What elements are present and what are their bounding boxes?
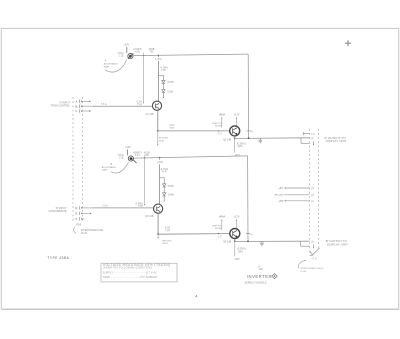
node bus A / +5V branch bbox=[158, 55, 160, 57]
svg-text:C1B: C1B bbox=[119, 56, 124, 58]
svg-text:PLUG: PLUG bbox=[81, 233, 87, 235]
svg-text:HIGH: HIGH bbox=[159, 140, 165, 142]
note box voltage readings bbox=[101, 263, 177, 282]
node bus A / base test line bbox=[143, 55, 145, 57]
svg-text:-20V: -20V bbox=[234, 257, 240, 261]
svg-text:+8MA: +8MA bbox=[218, 112, 225, 116]
wire input A to Q1 base bbox=[93, 105, 152, 107]
node bus B leg joins output B bbox=[247, 240, 249, 242]
capacitor C1 on output B wire bbox=[261, 241, 263, 243]
wire main bus channel A bbox=[133, 54, 248, 56]
wire output B to connector J2 bbox=[235, 240, 310, 242]
transistor Q2 bbox=[230, 126, 240, 136]
signal arrow on Q2 base wire bbox=[218, 130, 220, 131]
wire between CR3 CR4 bbox=[163, 187, 165, 192]
svg-text:Q1 14B: Q1 14B bbox=[146, 113, 155, 116]
svg-text:HIGH: HIGH bbox=[162, 243, 168, 245]
wire +5V branch down to Q3 collector bbox=[159, 164, 161, 204]
capacitor C2 on output A wire bbox=[259, 138, 261, 140]
svg-text:47MA: 47MA bbox=[118, 52, 124, 55]
svg-text:TYP: TYP bbox=[137, 103, 142, 107]
svg-text:INTERCONNECTING P: INTERCONNECTING P bbox=[301, 268, 325, 270]
wire between CR1 CR2 bbox=[162, 84, 164, 89]
svg-text:47MA: 47MA bbox=[118, 154, 124, 157]
wire diode branch channel B bbox=[160, 178, 165, 184]
transistor Q3 bbox=[154, 204, 163, 213]
svg-text:NOISE: NOISE bbox=[215, 228, 222, 230]
svg-text:FROM REMOTE: FROM REMOTE bbox=[49, 210, 67, 213]
svg-text:4.6V: 4.6V bbox=[135, 50, 140, 53]
jumper diagonal at J2 bottom bbox=[310, 248, 320, 255]
diode CR4 bbox=[163, 193, 166, 196]
title diamond mark bbox=[272, 274, 278, 279]
svg-text:E: E bbox=[76, 212, 78, 216]
svg-text:SUPPLY - - - - - - - - - - -: SUPPLY - - - - - - - - - - - - - - - - -… bbox=[103, 271, 157, 274]
svg-text:Q2 14B: Q2 14B bbox=[223, 139, 232, 142]
transistor Q1 bbox=[152, 101, 161, 110]
wire Q2 collector to output node bbox=[234, 136, 236, 139]
svg-text:20MV P-P: 20MV P-P bbox=[212, 225, 222, 227]
svg-text:4.6V: 4.6V bbox=[135, 154, 140, 157]
test callout line to Q1 base wire bbox=[143, 53, 145, 102]
svg-text:TYP: TYP bbox=[138, 204, 143, 208]
wire Q3 node to Q4 base bbox=[158, 233, 230, 236]
svg-text:ADJUSTABLE: ADJUSTABLE bbox=[102, 166, 116, 169]
return stub with arrow channel B bbox=[157, 234, 159, 237]
svg-text:) A: ) A bbox=[311, 200, 314, 203]
node output B junction bbox=[234, 241, 236, 243]
wire main bus channel B bbox=[134, 156, 248, 158]
wire output node A to -20V bbox=[234, 139, 236, 153]
svg-text:+8MA: +8MA bbox=[218, 215, 225, 219]
svg-text:1MA: 1MA bbox=[237, 145, 242, 148]
svg-text:INTERCONNECTING: INTERCONNECTING bbox=[81, 230, 104, 232]
svg-text:14B: 14B bbox=[259, 269, 264, 271]
wire +5V branch down to Q1 collector bbox=[157, 61, 159, 101]
callout arc to interconnecting plug right bbox=[299, 260, 307, 268]
svg-text:-20V: -20V bbox=[234, 153, 240, 157]
page bottom edge shadow bbox=[2, 308, 399, 310]
svg-text:TEMP - - - - - - - - - - - -: TEMP - - - - - - - - - - - - - - - - 77°… bbox=[103, 276, 158, 279]
potentiometer R2 gain adjust bbox=[128, 156, 133, 161]
svg-text:1MA: 1MA bbox=[238, 250, 243, 253]
wire bus A down leg bbox=[247, 54, 249, 138]
signal arrow on Q4 base wire bbox=[218, 233, 220, 234]
svg-text:≈1.5: ≈1.5 bbox=[217, 235, 222, 238]
svg-text:+12V: +12V bbox=[123, 44, 129, 47]
svg-text:D: D bbox=[75, 206, 77, 210]
svg-text:1N4B: 1N4B bbox=[167, 81, 174, 84]
wire input B to Q3 base bbox=[93, 207, 154, 209]
transistor Q4 bbox=[230, 229, 240, 239]
svg-text:PLUG: PLUG bbox=[301, 271, 307, 273]
wire CR4 to Q3 arrow bbox=[163, 196, 165, 200]
callout arc to interconnecting plug label bbox=[74, 227, 76, 234]
svg-text:7.5 A: 7.5 A bbox=[101, 103, 107, 106]
svg-text:Q3 14B: Q3 14B bbox=[145, 215, 154, 218]
svg-text:TYP: TYP bbox=[161, 68, 166, 72]
wire output node B to -20V bbox=[234, 241, 236, 256]
svg-text:+17V: +17V bbox=[233, 215, 239, 219]
wire Q1 node to Q2 base bbox=[158, 130, 230, 132]
svg-text:RETURN: RETURN bbox=[162, 240, 172, 242]
svg-text:+5V: +5V bbox=[278, 187, 283, 190]
svg-text:70K: 70K bbox=[149, 50, 154, 53]
supply arrow channel B bbox=[126, 150, 128, 155]
node output A junction bbox=[234, 138, 236, 140]
potentiometer R1 gain adjust bbox=[128, 54, 133, 59]
svg-text:513B: 513B bbox=[167, 90, 173, 93]
svg-text:DISPLAY UNIT: DISPLAY UNIT bbox=[327, 243, 348, 247]
svg-text:(+5V): (+5V) bbox=[155, 57, 162, 61]
diode CR3 bbox=[163, 184, 166, 187]
node output B ground branch bbox=[300, 241, 302, 246]
svg-text:C: C bbox=[75, 109, 77, 113]
svg-text:TYP: TYP bbox=[169, 126, 174, 130]
svg-text:DISPLAY UNIT: DISPLAY UNIT bbox=[326, 139, 347, 143]
wire output A to connector J2 bbox=[235, 137, 310, 140]
svg-text:1N4B: 1N4B bbox=[168, 194, 175, 197]
svg-text:TYPE 45BA: TYPE 45BA bbox=[47, 256, 69, 260]
capacitor tick on bus B leg bbox=[246, 233, 250, 235]
connector J1 dashed boundary line right bbox=[82, 97, 84, 223]
svg-text:3 4: 3 4 bbox=[311, 133, 315, 136]
svg-text:4: 4 bbox=[195, 294, 197, 298]
svg-text:NOISE: NOISE bbox=[215, 126, 222, 128]
svg-text:SERIES F MODELS: SERIES F MODELS bbox=[245, 283, 267, 285]
connector J2 dashed boundary line right bbox=[317, 129, 319, 248]
svg-text:GAIN: GAIN bbox=[104, 66, 110, 69]
node bus B / base test line bbox=[144, 157, 146, 159]
svg-text:C1B: C1B bbox=[119, 157, 124, 159]
capacitor tick on bus A leg bbox=[247, 130, 251, 132]
ground arrow at J2 pin row B bbox=[313, 245, 315, 248]
svg-text:-28V: -28V bbox=[279, 201, 284, 203]
gain adjust callout arc channel B bbox=[111, 162, 129, 173]
supply arrow channel A bbox=[126, 48, 128, 54]
connector J2 dashed boundary line left bbox=[309, 129, 311, 253]
svg-text:≈1.5: ≈1.5 bbox=[217, 133, 222, 136]
svg-text:RETURN: RETURN bbox=[159, 138, 169, 140]
potentiometer R1 wiper arrow bbox=[128, 54, 133, 59]
node output A ground branch bbox=[300, 138, 302, 143]
node Q3 emitter junction bbox=[157, 233, 159, 235]
diode CR2 bbox=[162, 89, 165, 92]
svg-text:FROM CONTROL: FROM CONTROL bbox=[51, 105, 71, 108]
svg-text:UNDER THE FOLLOWING CONDITIONS: UNDER THE FOLLOWING CONDITIONS bbox=[103, 267, 153, 270]
svg-text:B: B bbox=[76, 104, 78, 108]
test callout line to Q3 base wire bbox=[144, 155, 146, 203]
wire Q4 collector to output node bbox=[234, 239, 236, 242]
svg-text:P1B: P1B bbox=[76, 222, 81, 226]
svg-text:GROUND: GROUND bbox=[274, 195, 284, 197]
wire Q1 emitter down to node bbox=[157, 110, 159, 131]
diode CR1 bbox=[162, 80, 165, 83]
node Q1 emitter junction bbox=[157, 130, 159, 132]
svg-text:70K: 70K bbox=[145, 154, 150, 157]
svg-text:TYP: TYP bbox=[165, 228, 170, 232]
svg-text:TYP: TYP bbox=[161, 170, 166, 174]
wire diode branch channel A bbox=[158, 75, 163, 80]
svg-text:+17V: +17V bbox=[233, 112, 239, 116]
node bus A leg joins output A bbox=[248, 137, 250, 139]
svg-text:(+5V): (+5V) bbox=[157, 160, 164, 164]
shield stub to J2 pin 3-4 bbox=[303, 133, 310, 135]
svg-text:534B: 534B bbox=[168, 185, 174, 188]
wire bus B down leg bbox=[247, 156, 249, 241]
ground arrow at J2 pin row A bbox=[312, 142, 314, 145]
svg-text:20MV P-P: 20MV P-P bbox=[212, 123, 222, 125]
svg-text:Q4 14B: Q4 14B bbox=[223, 240, 232, 243]
return stub with arrow channel A bbox=[157, 131, 159, 145]
svg-text:A: A bbox=[76, 99, 78, 103]
node bus B / +5V branch bbox=[159, 157, 161, 159]
svg-text:INVERTER: INVERTER bbox=[247, 274, 272, 279]
wire Q3 emitter down to node bbox=[157, 213, 159, 234]
svg-text:ADJUSTABLE: ADJUSTABLE bbox=[104, 63, 118, 66]
registration cross mark bbox=[345, 42, 351, 44]
wire CR2 to Q1 arrow bbox=[162, 93, 164, 97]
svg-text:+7 V: +7 V bbox=[311, 257, 317, 261]
svg-text:GAIN: GAIN bbox=[102, 169, 108, 172]
gain adjust callout arc channel A bbox=[105, 60, 127, 73]
svg-text:+12V: +12V bbox=[125, 146, 131, 149]
potentiometer R2 wiper arrow bbox=[132, 158, 136, 162]
connector J1 dashed boundary line left bbox=[72, 97, 74, 223]
svg-text:2.5 A: 2.5 A bbox=[102, 205, 108, 208]
